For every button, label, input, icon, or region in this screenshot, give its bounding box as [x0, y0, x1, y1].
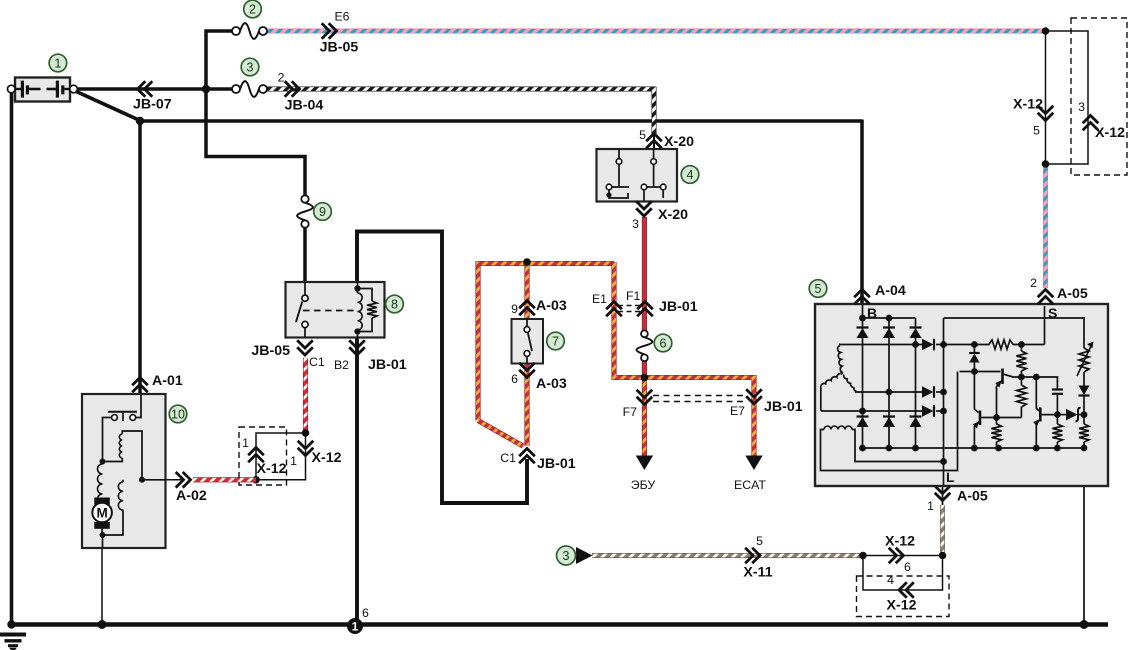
svg-text:4: 4	[887, 573, 894, 587]
chevron A-02	[176, 472, 191, 488]
svg-text:B2: B2	[334, 358, 349, 372]
label JB-05 relay	[251, 343, 290, 359]
label 6 node	[362, 606, 369, 620]
label 6	[511, 372, 518, 386]
wire X-20 stub	[653, 134, 655, 149]
label 5 X-20	[639, 128, 646, 142]
junctions B rail	[859, 315, 892, 322]
label 4 bottom	[887, 573, 894, 587]
fuse 2	[232, 23, 267, 39]
svg-text:2: 2	[278, 71, 285, 85]
chevron X-12 topright loop	[1083, 116, 1099, 131]
svg-text:5: 5	[639, 128, 646, 142]
chevron 2 JB-04	[285, 81, 300, 97]
svg-text:2: 2	[1030, 276, 1037, 290]
variable resistor	[1077, 342, 1094, 377]
wire starter A-02 stub	[166, 479, 183, 481]
arrow to ECAT	[745, 456, 762, 471]
svg-text:JB-04: JB-04	[285, 98, 324, 114]
node line to Q3 and capacitor	[1021, 374, 1057, 389]
transistor Q2	[973, 372, 980, 449]
svg-text:10: 10	[171, 407, 185, 421]
wire red/yellow switch branch lower	[524, 363, 529, 446]
svg-text:X-12: X-12	[1095, 125, 1125, 141]
chevron JB-05 relay	[297, 340, 313, 355]
wire starter motor ground	[101, 548, 103, 625]
svg-text:JB-01: JB-01	[537, 456, 576, 472]
field winding	[821, 372, 958, 471]
wire feed down to starter A-01	[138, 120, 142, 395]
chevron F7	[637, 390, 653, 405]
rectifier top diodes	[857, 328, 922, 339]
label 3 X-20	[632, 217, 639, 231]
svg-text:X-20: X-20	[658, 207, 688, 223]
label X-20 top	[664, 134, 694, 150]
svg-text:A-04: A-04	[875, 283, 906, 299]
wire red/yellow diagonal to C1	[478, 421, 523, 447]
chevron E1	[606, 302, 622, 317]
circled 6	[654, 334, 672, 352]
junction bottom X-12 right	[939, 552, 947, 560]
label A-02	[176, 488, 207, 504]
label X-12 bottom low	[887, 598, 917, 614]
fuse 6	[637, 330, 653, 361]
circled 2	[244, 0, 262, 18]
label E7	[730, 404, 745, 418]
diode trio 3	[922, 405, 934, 417]
label X-11	[743, 565, 772, 581]
X-12 bypass loop left	[256, 433, 306, 480]
svg-text:JB-01: JB-01	[764, 399, 803, 415]
label 5 topright	[1033, 124, 1040, 138]
circled 3	[241, 58, 259, 76]
svg-text:X-12: X-12	[1013, 96, 1043, 112]
junction X-12 bottom	[252, 476, 260, 484]
svg-text:C1: C1	[309, 355, 325, 369]
circled 3 bottom	[557, 546, 576, 565]
wire red/yellow to E7/ECAT	[644, 378, 754, 457]
label A-05 bottom	[957, 489, 988, 505]
svg-text:F7: F7	[623, 405, 638, 419]
junction starter ground	[98, 620, 107, 629]
label 2 fuse3 pin	[278, 71, 285, 85]
svg-text:JB-01: JB-01	[659, 299, 698, 315]
svg-text:A-03: A-03	[536, 376, 567, 392]
chevron A-04	[854, 290, 870, 305]
circled 9	[314, 203, 332, 221]
regulator sense line	[944, 306, 1045, 348]
resistor R6	[1079, 415, 1089, 448]
svg-text:5: 5	[756, 534, 763, 548]
wire fuse9 to relay switch	[303, 227, 307, 283]
label A-03 bottom	[536, 376, 567, 392]
chevron A-03 bottom	[519, 363, 535, 378]
circled 8	[386, 295, 404, 313]
node 1 ground junction	[347, 618, 363, 634]
junction top-right X-12 lower	[1042, 160, 1050, 168]
svg-text:A-01: A-01	[152, 373, 183, 389]
svg-text:M: M	[96, 506, 107, 521]
circled 1	[49, 54, 67, 72]
svg-text:4: 4	[687, 168, 694, 182]
wire JB-04 black/white	[266, 89, 654, 134]
fuse 3	[232, 81, 267, 97]
junction red/yellow top	[523, 258, 531, 266]
circled 5	[809, 280, 827, 298]
label F7	[623, 405, 638, 419]
svg-text:1: 1	[927, 499, 934, 513]
chevron E6 JB-05	[322, 23, 337, 39]
label C1	[500, 451, 516, 465]
svg-text:1: 1	[54, 56, 61, 70]
chevron X-11	[745, 548, 760, 564]
wire relay B2 to ground node	[355, 338, 359, 624]
label B2	[334, 358, 349, 372]
chevron A-05 L	[935, 486, 951, 501]
wire red fuse 6 to junction	[642, 359, 647, 378]
svg-text:A-05: A-05	[1057, 286, 1088, 302]
phase line 3	[821, 408, 944, 415]
label E1	[592, 292, 607, 306]
top-right X-12 bypass loop	[1046, 31, 1089, 164]
label X-12 bottom top	[885, 534, 915, 550]
chevron X-12 topright main	[1038, 106, 1054, 121]
wire red/yellow loop top	[478, 264, 614, 421]
label 6 bottom	[904, 560, 911, 574]
svg-text:3: 3	[247, 60, 254, 74]
svg-text:E1: E1	[592, 292, 607, 306]
relay 8	[286, 282, 385, 338]
label A-01	[152, 373, 183, 389]
svg-text:1: 1	[352, 620, 359, 634]
svg-text:X-12: X-12	[257, 461, 287, 477]
wire fuse2 branch vertical	[206, 31, 305, 197]
label JB-04	[285, 98, 324, 114]
starter motor 10	[82, 394, 166, 548]
label A-03 top	[536, 298, 567, 314]
capacitor C1	[1052, 390, 1063, 419]
label 1 A-05	[927, 499, 934, 513]
ignition switch 4	[597, 149, 678, 202]
svg-text:6: 6	[904, 560, 911, 574]
svg-text:6: 6	[362, 606, 369, 620]
label 5 X-11	[756, 534, 763, 548]
lamp diode	[1079, 372, 1090, 415]
dashed connector link E1-F1	[618, 306, 640, 312]
svg-text:3: 3	[1078, 100, 1085, 114]
wire red/yellow E1 branch	[614, 262, 646, 378]
switch 7	[512, 319, 544, 364]
junction battery ground	[7, 620, 15, 628]
wire red/white JB-05 C1 relay to X-12	[303, 358, 308, 433]
svg-text:X-11: X-11	[743, 565, 772, 581]
svg-text:A-03: A-03	[536, 298, 567, 314]
wire JB-05 pink/blue E6	[264, 28, 1046, 33]
wire relay coil loop to C1	[357, 232, 527, 504]
transistor Q1	[974, 369, 1021, 418]
wire red/yellow F7 to ECU	[642, 378, 647, 457]
resistor R4	[992, 418, 1002, 449]
svg-text:6: 6	[511, 372, 518, 386]
label 1 X-12 right	[290, 454, 297, 468]
label L	[946, 469, 955, 485]
label B	[867, 305, 877, 321]
circled 7	[547, 332, 565, 350]
svg-text:C1: C1	[500, 451, 516, 465]
divider resistor R3	[1016, 377, 1026, 418]
top inner rail to lamp chain	[944, 318, 1085, 348]
wire battery to ground bus (left edge)	[10, 92, 14, 625]
rectifier bottom diodes	[857, 417, 922, 428]
chevron A-03 top	[519, 301, 535, 316]
svg-text:X-12: X-12	[312, 450, 342, 466]
svg-text:5: 5	[815, 282, 822, 296]
svg-text:2: 2	[249, 2, 256, 16]
wire brown/white X-11 horizontal	[592, 553, 863, 558]
junction bottom X-12 left	[859, 552, 867, 560]
svg-text:E6: E6	[334, 10, 349, 24]
svg-text:3: 3	[632, 217, 639, 231]
label JB-07	[133, 97, 172, 113]
junction X-12 top	[302, 429, 310, 437]
base line Q2	[981, 414, 1021, 421]
chevron X-20 top	[646, 134, 662, 149]
wire red/white A-02	[193, 477, 256, 482]
svg-text:ECAT: ECAT	[734, 478, 766, 492]
svg-text:9: 9	[511, 302, 518, 316]
wire L stub	[942, 486, 944, 505]
svg-text:X-12: X-12	[885, 534, 915, 550]
svg-text:3: 3	[563, 549, 570, 563]
zener diode	[969, 345, 980, 375]
battery 1	[8, 78, 78, 102]
chevron C1 JB-01	[519, 449, 535, 464]
label JB-01 relay	[368, 357, 407, 373]
chevron F1	[637, 302, 653, 317]
chevron JB-07	[138, 81, 153, 97]
phase line 1	[839, 341, 944, 348]
chevron X-12 left up	[248, 448, 264, 463]
svg-text:6: 6	[660, 336, 667, 350]
svg-text:X-20: X-20	[664, 134, 694, 150]
label X-12 left	[257, 461, 287, 477]
svg-text:7: 7	[552, 334, 559, 348]
svg-text:A-05: A-05	[957, 489, 988, 505]
arrow to ECU	[636, 456, 653, 471]
chevron E7	[746, 389, 762, 404]
dashed box X-12 top right	[1071, 18, 1127, 175]
wire red ignition feed X-20/3 to fuse 6	[642, 217, 647, 332]
wire main feed horizontal to alternator B	[139, 119, 862, 123]
bottom rail	[859, 445, 1087, 452]
svg-text:5: 5	[1033, 124, 1040, 138]
svg-text:JB-05: JB-05	[320, 40, 359, 56]
junction alternator ground	[1080, 620, 1089, 629]
svg-text:ЭБУ: ЭБУ	[631, 478, 656, 492]
top-right X-12 connector straight	[1045, 31, 1047, 164]
wire red/yellow switch branch upper	[524, 262, 529, 319]
label X-12 inbox	[1095, 125, 1125, 141]
circled 4	[681, 166, 699, 184]
dashed box X-12 bottom	[857, 576, 950, 617]
label X-20 bottom	[658, 207, 688, 223]
label JB-01 C1	[537, 456, 576, 472]
divider resistor R2	[1016, 345, 1026, 381]
svg-text:9: 9	[319, 205, 326, 219]
wire battery positive to fuse 3	[74, 87, 232, 91]
wire pink/blue to alternator S	[1043, 162, 1048, 288]
label F1	[626, 289, 641, 303]
label X-12 right	[312, 450, 342, 466]
label A-04	[875, 283, 906, 299]
source arrow 3	[576, 547, 593, 564]
label JB-01 E7	[764, 399, 803, 415]
phase line 2	[855, 389, 944, 396]
label JB-05 top	[320, 40, 359, 56]
svg-text:F1: F1	[626, 289, 641, 303]
svg-text:1: 1	[242, 436, 249, 450]
svg-text:E7: E7	[730, 404, 745, 418]
chevron A-05 S	[1038, 290, 1054, 305]
label 2 A-05	[1030, 276, 1037, 290]
svg-text:A-02: A-02	[176, 488, 207, 504]
resistor R1 sense	[989, 340, 1013, 349]
label ECAT	[734, 478, 766, 492]
label S	[1048, 305, 1057, 321]
resistor R5	[1052, 415, 1062, 448]
junction node diagonal/main feed	[136, 117, 144, 125]
chevron A-01	[132, 378, 148, 393]
dashed box X-12 starter	[239, 427, 287, 485]
junction red junction F7	[641, 374, 649, 382]
svg-text:JB-07: JB-07	[133, 97, 172, 113]
diode trio 2	[922, 386, 934, 398]
svg-text:JB-05: JB-05	[251, 343, 290, 359]
wire alternator B drop	[860, 120, 864, 305]
dashed connector link F7-E7	[653, 396, 747, 402]
label JB-01 F1	[659, 299, 698, 315]
transistor Q3	[1033, 377, 1057, 448]
svg-text:1: 1	[290, 454, 297, 468]
label A-05 top	[1057, 286, 1088, 302]
svg-text:X-12: X-12	[887, 598, 917, 614]
label C1 relay	[309, 355, 325, 369]
wire brown/white to alternator L	[940, 505, 945, 556]
label E6	[334, 10, 349, 24]
alternator 5 box	[815, 304, 1108, 486]
label ECU	[631, 478, 656, 492]
X-12 bottom bypass loop	[863, 556, 943, 591]
label 9	[511, 302, 518, 316]
svg-text:L: L	[946, 469, 955, 485]
label 3 topright	[1078, 100, 1085, 114]
junction node battery feed	[202, 85, 211, 94]
regulator return line	[960, 371, 975, 373]
chevron X-20 bottom	[636, 201, 652, 216]
label X-12 topright	[1013, 96, 1043, 112]
diode D8	[1057, 408, 1087, 422]
X-12 bottom connector straight	[863, 555, 943, 557]
svg-text:8: 8	[391, 297, 398, 311]
X-12 loop right branch	[256, 433, 306, 480]
stator windings	[821, 346, 857, 412]
L bus	[940, 318, 947, 486]
alternator B bus and rectifier columns	[863, 304, 916, 448]
circled 10	[169, 405, 187, 423]
ground bus	[8, 622, 1108, 627]
label 1 X-12 left	[242, 436, 249, 450]
chevron B2 JB-01	[349, 340, 365, 355]
chevron X-12 bottom 6	[889, 548, 904, 564]
wire battery diagonal to main feed	[73, 90, 141, 121]
fuse 9	[297, 195, 313, 227]
diode trio 1	[922, 339, 934, 351]
wire alternator case ground	[1083, 448, 1085, 625]
svg-text:JB-01: JB-01	[368, 357, 407, 373]
ground symbol	[0, 635, 26, 650]
chevron X-12 bottom 4	[899, 582, 914, 598]
junction top-right X-12 upper	[1042, 27, 1050, 35]
chevron X-12 right down	[298, 441, 314, 456]
